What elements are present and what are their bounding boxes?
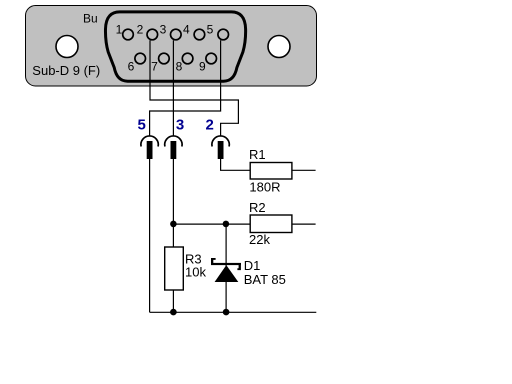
wire hook2 to R1: [221, 159, 251, 170]
hook contact 5 bar: [147, 141, 153, 159]
pin 6: [135, 53, 146, 64]
svg-text:8: 8: [176, 60, 183, 74]
resistor R2 body: [250, 215, 292, 233]
pin 2: [147, 29, 158, 40]
junction dot at D1 top net: [223, 221, 230, 228]
svg-text:2: 2: [137, 22, 144, 36]
diode D1 cathode right hook: [237, 263, 241, 270]
svg-text:10k: 10k: [185, 265, 206, 280]
wire pin5 to hook 5 (cross-over route): [150, 40, 221, 136]
diode D1 cathode bar: [211, 263, 241, 265]
svg-text:D1: D1: [244, 258, 261, 273]
wire D1 vertical: [225, 224, 227, 312]
mounting hole right: [268, 36, 290, 58]
svg-text:180R: 180R: [249, 180, 280, 195]
pin 9: [206, 53, 217, 64]
svg-text:R2: R2: [249, 200, 266, 215]
svg-text:3: 3: [160, 22, 167, 36]
svg-text:4: 4: [183, 22, 190, 36]
wire pin2 to hook 2 (cross-over route): [150, 40, 238, 136]
hook contact 2 arc: [212, 136, 229, 147]
mounting hole left: [56, 36, 78, 58]
junction dot on pin3 net: [170, 221, 177, 228]
wire hook5 down to bottom rail: [149, 159, 151, 312]
bottom rail wire: [150, 311, 317, 313]
wire node to R2: [173, 223, 250, 225]
pin 8: [182, 53, 193, 64]
hook contact 3 arc: [165, 136, 182, 147]
pin 7: [159, 53, 170, 64]
wire R1 right: [292, 169, 316, 171]
pin 3: [171, 29, 182, 40]
svg-text:2: 2: [206, 117, 214, 134]
connector body Sub-D 9: [26, 6, 317, 87]
wire R3 bottom: [172, 290, 174, 312]
D-sub face outline: [105, 12, 245, 81]
pin 4: [194, 29, 205, 40]
resistor R1 body: [250, 163, 292, 180]
diode D1 cathode left hook: [211, 258, 216, 265]
svg-text:3: 3: [176, 117, 184, 134]
diode D1 triangle: [215, 265, 239, 282]
wire hook3 down to R3: [172, 159, 174, 247]
svg-text:7: 7: [151, 60, 158, 74]
hook contact 5 arc: [141, 136, 158, 147]
pin 5: [218, 29, 229, 40]
wire R2 right: [292, 223, 316, 225]
pin 1: [123, 29, 134, 40]
svg-text:6: 6: [128, 60, 135, 74]
svg-text:1: 1: [116, 22, 123, 36]
svg-text:BAT 85: BAT 85: [244, 272, 286, 287]
junction dot rail left: [170, 309, 177, 316]
svg-text:5: 5: [138, 117, 146, 134]
svg-text:Bu: Bu: [83, 11, 98, 25]
junction dot rail right: [223, 309, 230, 316]
svg-text:22k: 22k: [249, 232, 270, 247]
resistor R3 body: [165, 247, 184, 290]
svg-text:R1: R1: [249, 147, 266, 162]
svg-text:Sub-D 9 (F): Sub-D 9 (F): [32, 63, 100, 78]
svg-text:5: 5: [207, 22, 214, 36]
svg-text:9: 9: [199, 60, 206, 74]
hook contact 3 bar: [171, 141, 177, 159]
wire pin3 to hook 3: [172, 40, 174, 136]
hook contact 2 bar: [218, 141, 224, 159]
